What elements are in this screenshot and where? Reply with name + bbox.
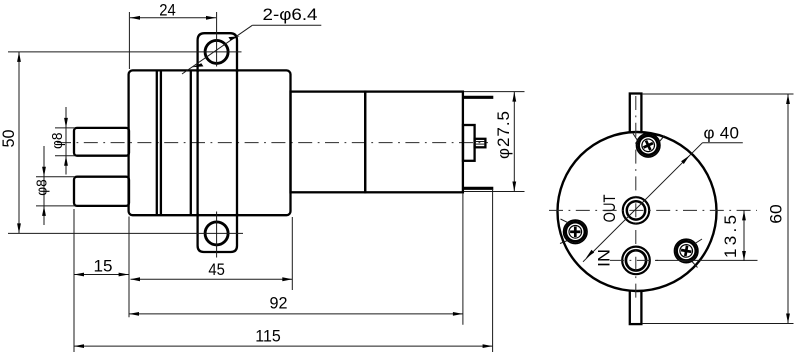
node pump head body [129,70,291,215]
dimension phi8 upper arrow bottom [65,156,67,175]
dimension phi40 leader diagonal [583,143,703,262]
svg-text:115: 115 [255,327,281,346]
dimension phi8 upper extension top [55,127,75,129]
wire seam line 3 [190,70,192,215]
dimension 50 arrow bottom [17,223,21,233]
dimension 45 line [131,278,293,280]
svg-text:50: 50 [0,130,18,148]
svg-text:φ8: φ8 [49,133,66,150]
wire bracket plate left edge through body [196,70,198,215]
dimension 115 arrow left [74,344,84,348]
svg-text:IN: IN [595,249,614,267]
dimension 13.5 extension bottom [655,259,758,261]
dimension phi40 arrow upper [681,156,689,165]
svg-text:15: 15 [94,256,113,275]
dimension 15 line [74,274,129,276]
dimension 13.5 arrow top [742,210,746,220]
dimension 60 extension bottom [642,323,794,325]
dimension phi27.5 line [513,92,515,192]
svg-text:45: 45 [208,260,225,279]
dimension phi8 lower arrow top [43,146,45,206]
dimension 92 line [129,313,463,315]
dimension 92 arrow left [129,312,139,316]
dimension 115 extension right [492,189,494,352]
svg-text:φ 40: φ 40 [704,124,740,143]
dimension 50 extension bottom [8,232,243,234]
svg-text:φ27.5: φ27.5 [494,111,513,159]
node screw boss top [633,134,665,158]
wire terminal pin slot line 1 [475,141,485,143]
wire horizontal centerline right view [549,209,757,211]
dimension phi8 lower extension top [36,176,75,178]
node top mounting hole [205,40,228,63]
dimension phi40 arrow lower [586,250,594,258]
wire seam line 2 [160,70,162,215]
dimension 92 extension right [462,194,464,325]
dimension 13.5 arrow bottom [742,251,746,261]
dimension 2-phi6.4 arrow upper [228,36,239,40]
dimension 50 arrow top [17,52,21,62]
dimension phi27.5 extension bottom [464,191,525,193]
dimension 60 extension top [642,93,794,95]
dimension 45 extension right [291,217,293,290]
wire motor bottom crimp tab [464,187,494,190]
screw S2 left [562,218,589,245]
dimension phi27.5 extension top [464,91,525,93]
wire terminal pin slot line 2 [475,143,485,145]
dimension 13.5 line [743,210,745,261]
svg-text:2-φ6.4: 2-φ6.4 [263,5,318,24]
node OUT port inner [627,201,645,219]
dimension 2-phi6.4 arrow lower [192,63,203,67]
dimension phi8 upper extension bottom [55,155,75,157]
wire centerline main axis [57,142,488,144]
node bottom mounting tab [198,214,237,253]
dimension 92 arrow right [453,312,463,316]
node upper OUT port stub [74,128,129,156]
svg-text:13.5: 13.5 [721,215,740,258]
dimension phi8 lower arrow bottom [43,206,45,225]
svg-text:OUT: OUT [600,194,619,222]
wire IN port centerline [610,259,662,261]
dimension 115 line [74,345,493,347]
dimension 115 arrow right [483,344,493,348]
node top mounting tab [198,33,237,72]
node terminal block [463,125,475,161]
wire vertical centerline right view [635,96,637,299]
svg-text:φ8: φ8 [34,179,51,196]
dimension phi8 lower extension bottom [36,205,75,207]
node gearbox section [291,92,366,193]
node terminal pin [475,139,486,148]
dimension 60 line [787,94,789,324]
dimension 24 extension left [128,12,130,69]
svg-text:92: 92 [270,293,288,312]
node screw boss left [560,219,587,244]
dimension 45 arrow right [282,277,292,281]
node bracket top strip [630,94,642,139]
dimension phi40 leader shoulder [703,142,743,144]
dimension phi27.5 arrow top [512,92,516,102]
wire bottom hole vertical centerline [216,212,218,258]
dimension 60 arrow bottom [786,314,790,324]
wire seam line 1 [156,70,158,215]
dimension 24 extension right / hole centerline [216,12,218,67]
wire motor top crimp tab [464,96,494,99]
node OUT port outer [623,197,649,223]
dimension 60 arrow top [786,94,790,104]
node screw boss bottom right [675,239,703,268]
dimension 15 extension lines [73,209,75,352]
dimension 45 arrow left [131,277,141,281]
dimension phi8 upper arrow top [65,107,67,156]
node bracket bottom strip [630,285,642,324]
dimension 50 extension top [8,51,242,53]
dimension 24 arrow left [130,16,140,20]
svg-text:60: 60 [767,204,786,224]
dimension phi27.5 arrow bottom [512,182,516,192]
dimension 2-phi6.4 leader diagonal [182,25,252,74]
dimension 24 line [130,17,216,19]
dimension 15 arrow left [74,273,84,277]
screw S3 bottom right [675,240,697,262]
node lower IN port stub [74,177,129,206]
dimension 15 arrow right [119,273,129,277]
svg-text:24: 24 [159,1,176,20]
screw S1 top [636,133,661,158]
wire bracket plate right edge through body [236,70,238,215]
node motor body [365,92,463,193]
node IN port inner [626,250,646,270]
dimension 2-phi6.4 leader shoulder [252,24,321,26]
node pump face circle [558,132,717,291]
node bottom mounting hole [205,222,228,245]
dimension 50 line [18,52,20,234]
node IN port outer [622,247,650,275]
dimension 24 arrow right [206,16,216,20]
